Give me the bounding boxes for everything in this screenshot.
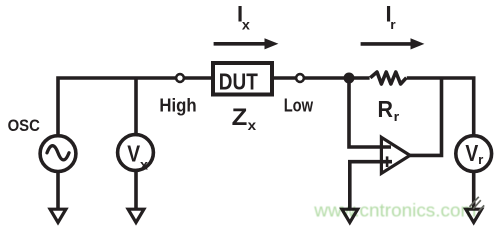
op-amp U1 — [381, 137, 410, 173]
svg-text:High: High — [159, 94, 196, 115]
node junction dot — [344, 73, 355, 84]
terminal Low — [296, 74, 304, 82]
current arrow Ix — [214, 42, 266, 46]
wire Vr to ground — [472, 172, 476, 210]
ground (Vr) — [466, 209, 482, 222]
wire non-inverting input to ground — [350, 162, 392, 210]
terminal High — [176, 74, 184, 82]
plus sign vertical bar — [386, 156, 389, 167]
wire Vx branch — [134, 78, 138, 134]
svg-text:r: r — [390, 17, 395, 32]
svg-text:Low: Low — [284, 94, 314, 115]
wire OSC to ground — [56, 172, 60, 210]
wire DUT to Low terminal — [274, 76, 296, 80]
svg-text:DUT: DUT — [219, 69, 258, 95]
resistor Rr — [370, 72, 406, 84]
sine wave symbol — [47, 146, 69, 160]
svg-text:R: R — [378, 96, 394, 122]
voltmeter Vr — [456, 136, 492, 172]
wire node down to inverting input — [349, 78, 391, 147]
ground (op-amp +) — [342, 209, 358, 222]
svg-text:x: x — [140, 156, 148, 172]
wire High terminal to DUT — [184, 76, 211, 80]
svg-text:r: r — [478, 152, 483, 167]
wire op-amp output up to feedback — [410, 78, 442, 155]
svg-text:V: V — [127, 141, 140, 167]
svg-text:OSC: OSC — [8, 116, 40, 135]
svg-text:x: x — [242, 17, 251, 32]
ground (Vx) — [128, 209, 144, 222]
svg-text:Z: Z — [232, 104, 248, 131]
ground (OSC) — [50, 209, 66, 222]
svg-text:r: r — [394, 109, 400, 124]
wire node to resistor — [349, 76, 370, 80]
wire resistor to right corner, down to Vr — [407, 78, 474, 136]
oscillator source OSC — [40, 136, 76, 172]
wire Vx to ground — [134, 171, 138, 210]
watermark slashes — [470, 197, 485, 211]
wire Low terminal to node — [304, 76, 352, 80]
svg-text:x: x — [248, 118, 257, 133]
voltmeter Vx — [118, 135, 154, 171]
svg-text:www.cntronics.com: www.cntronics.com — [313, 199, 476, 220]
DUT box — [213, 63, 272, 95]
current arrow Ir — [361, 42, 412, 46]
svg-text:V: V — [465, 140, 478, 166]
wire top-left horizontal — [58, 78, 176, 134]
